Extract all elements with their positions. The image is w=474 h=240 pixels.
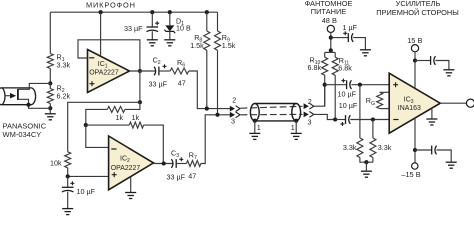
wire R6 to line 2 bbox=[189, 71, 231, 109]
svg-text:МИКРОФОН: МИКРОФОН bbox=[86, 0, 136, 9]
svg-text:33 µF: 33 µF bbox=[167, 172, 186, 181]
wire IC1 output bbox=[130, 70, 156, 72]
wire mic drain lead bbox=[18, 83, 50, 89]
svg-text:ПРИЕМНОЙ СТОРОНЫ: ПРИЕМНОЙ СТОРОНЫ bbox=[376, 8, 459, 17]
wire mic source lead bbox=[18, 99, 50, 108]
svg-text:48 В: 48 В bbox=[322, 16, 337, 25]
svg-text:1k: 1k bbox=[116, 113, 124, 122]
wire -15V supply bbox=[414, 118, 416, 163]
terminal output bbox=[466, 99, 474, 107]
arrow line3 right bbox=[304, 112, 314, 118]
node shield right bbox=[294, 119, 298, 123]
wire IC1 output down to divider bbox=[139, 71, 141, 102]
wire 15V supply bbox=[414, 52, 416, 89]
svg-text:1: 1 bbox=[291, 123, 295, 132]
ground -15V cap bbox=[446, 162, 457, 168]
svg-text:УСИЛИТЕЛЬ: УСИЛИТЕЛЬ bbox=[396, 0, 441, 8]
resistor 3.3k right bbox=[372, 120, 374, 139]
ground IC2 supply bbox=[130, 177, 132, 192]
ground under 33uF bbox=[147, 40, 158, 46]
wire line2 to receiver bbox=[313, 85, 325, 107]
svg-text:33 µF: 33 µF bbox=[124, 24, 143, 33]
capacitor C3 33uF bbox=[171, 159, 176, 168]
wire C2 to R6 bbox=[159, 70, 170, 72]
capacitor -15V bypass bbox=[415, 149, 432, 151]
resistor 1k first (input) bbox=[125, 102, 140, 109]
svg-text:3.3k: 3.3k bbox=[57, 61, 71, 70]
node mic ground junction bbox=[48, 106, 52, 110]
node -15V cap junction bbox=[413, 148, 417, 152]
wire IC3 output bbox=[440, 102, 466, 104]
node line3/R11 junction bbox=[333, 117, 337, 121]
capacitor 1uF bbox=[331, 37, 349, 39]
wire R1 to node A bbox=[49, 69, 51, 84]
svg-text:6.2k: 6.2k bbox=[57, 92, 71, 101]
resistor R10 6.8k bbox=[324, 52, 326, 57]
op-amp IC2 OPA2227 bbox=[109, 136, 154, 190]
svg-text:47: 47 bbox=[188, 171, 196, 180]
svg-text:OPA2227: OPA2227 bbox=[111, 165, 141, 172]
pin IC2 inverting marker bbox=[111, 148, 116, 150]
wire R2 bottom to ground node bbox=[49, 104, 51, 109]
node МИКРОФОН rail junctions bbox=[99, 10, 103, 14]
pin IC3 + marker bbox=[393, 82, 398, 87]
wire R1 top lead from rail bbox=[49, 12, 51, 53]
svg-text:3.3k: 3.3k bbox=[343, 143, 357, 152]
svg-text:3: 3 bbox=[231, 117, 235, 126]
capacitor 33uF rail filter bbox=[151, 12, 153, 27]
mic internal FET gate bar bbox=[17, 89, 19, 100]
wire 1k feedback to IC2 output bbox=[144, 125, 164, 163]
node RG + line bbox=[358, 83, 362, 87]
ground under 3.3k pair bbox=[365, 162, 367, 171]
node 48V cap junction bbox=[329, 36, 333, 40]
resistor RG gain set bbox=[380, 91, 390, 93]
ground under D1 bbox=[164, 40, 175, 46]
pin IC1 inverting input marker bbox=[89, 57, 94, 59]
node 3.3k common bbox=[364, 160, 368, 164]
shielded cable cylinder bbox=[250, 104, 300, 121]
terminal 48V bbox=[327, 25, 334, 32]
svg-text:2: 2 bbox=[232, 96, 236, 105]
svg-text:10k: 10k bbox=[50, 158, 62, 167]
op-amp IC3 INA163 bbox=[389, 73, 440, 133]
node IC2 output/feedback bbox=[162, 161, 166, 165]
svg-text:10 µF: 10 µF bbox=[338, 90, 357, 99]
resistor R6 47 bbox=[170, 68, 188, 74]
ground 15V cap bbox=[443, 70, 454, 76]
ground shield left, pin 1 bbox=[254, 121, 256, 133]
diode D1 zener 10V bbox=[169, 12, 171, 25]
ground shield right, pin 1 bbox=[295, 121, 297, 133]
node RG - line bbox=[371, 117, 375, 121]
svg-text:1.5k: 1.5k bbox=[222, 41, 236, 50]
node R9 line3 bbox=[215, 113, 219, 117]
wire 10k to IC2 + input bbox=[68, 168, 109, 177]
terminal 15V bbox=[411, 45, 418, 52]
svg-text:OPA2227: OPA2227 bbox=[89, 69, 119, 76]
svg-text:10 µF: 10 µF bbox=[77, 187, 96, 196]
svg-text:–15 В: –15 В bbox=[401, 170, 420, 179]
svg-text:WM-034CY: WM-034CY bbox=[3, 130, 42, 139]
resistor R9 1.5k bbox=[217, 12, 219, 31]
wire IC1 feedback loop output to inverting input bbox=[78, 40, 140, 71]
node line2/R10 junction bbox=[323, 83, 327, 87]
terminal -15V bbox=[412, 163, 418, 169]
wire 48V down bbox=[330, 33, 332, 53]
node IC2 + bias node bbox=[66, 174, 70, 178]
arrow line3 left bbox=[230, 112, 240, 118]
pin IC2 noninverting marker bbox=[112, 172, 117, 177]
arrow line2 left bbox=[230, 106, 240, 112]
pin IC1 noninverting input marker bbox=[90, 81, 95, 86]
mic internal electret arrow bbox=[5, 95, 11, 97]
ground under 10uF bbox=[67, 192, 69, 209]
capacitor C2 33uF bbox=[154, 67, 159, 76]
resistor R1 3.3k bbox=[47, 54, 53, 69]
capacitor 10uF bias bbox=[67, 176, 69, 187]
svg-text:INA163: INA163 bbox=[398, 105, 421, 112]
svg-text:15 В: 15 В bbox=[407, 36, 422, 45]
capacitor 10uF line3 bbox=[335, 119, 345, 121]
wire R7 to line 3 bbox=[201, 115, 230, 164]
svg-text:3: 3 bbox=[308, 118, 312, 127]
resistor 1k second (feedback) bbox=[86, 124, 130, 126]
capacitor 15V bypass bbox=[415, 60, 431, 62]
svg-text:1 µF: 1 µF bbox=[343, 23, 358, 32]
node mic source terminal bbox=[26, 103, 30, 107]
resistor 3.3k left bbox=[359, 85, 361, 138]
wire R10 R11 bracket bbox=[325, 51, 336, 53]
wire C3 to R7 bbox=[176, 163, 186, 165]
svg-text:1k: 1k bbox=[132, 113, 140, 122]
wire IC2 output bbox=[154, 163, 173, 165]
node shield left bbox=[253, 119, 257, 123]
resistor 10k bbox=[65, 152, 71, 168]
node IC1 output bbox=[138, 69, 142, 73]
svg-text:47: 47 bbox=[178, 78, 186, 87]
wire top rail МИКРОФОН bbox=[50, 11, 217, 13]
arrow line2 right bbox=[304, 103, 314, 109]
svg-text:1: 1 bbox=[257, 123, 261, 132]
pin IC3 - marker bbox=[393, 119, 398, 121]
wire to 10k bias filter bbox=[68, 102, 140, 152]
node 15V cap junction bbox=[413, 58, 417, 62]
node wire1 junction bbox=[138, 100, 142, 104]
wire line3 to receiver bbox=[313, 114, 335, 119]
svg-text:6.8k: 6.8k bbox=[308, 63, 322, 72]
node IC2 inverting junction bbox=[84, 123, 88, 127]
microphone WM-034CY capsule bbox=[0, 88, 36, 105]
node R8 line2 bbox=[205, 107, 209, 111]
capacitor 10uF line2 bbox=[325, 84, 347, 86]
resistor R2 6.2k bbox=[49, 83, 51, 88]
wire dashed pair in shield bbox=[241, 106, 303, 108]
svg-text:10 µF: 10 µF bbox=[339, 101, 358, 110]
svg-text:33 µF: 33 µF bbox=[149, 80, 168, 89]
svg-text:3.3k: 3.3k bbox=[378, 143, 392, 152]
svg-text:1.5k: 1.5k bbox=[190, 41, 204, 50]
ground under 1uF bbox=[360, 50, 371, 56]
resistor R7 47 bbox=[186, 161, 201, 167]
ground under R2 bbox=[49, 108, 51, 114]
resistor R11 6.8k bbox=[334, 52, 336, 57]
wire to IC2 inverting input bbox=[86, 125, 109, 147]
resistor R8 1.5k bbox=[206, 12, 208, 31]
ground IC3 bbox=[431, 108, 433, 119]
svg-text:10 В: 10 В bbox=[176, 24, 191, 33]
op-amp IC1 OPA2227 bbox=[88, 50, 130, 93]
svg-text:ПИТАНИЕ: ПИТАНИЕ bbox=[311, 7, 346, 16]
node R10/R11 top junction bbox=[329, 48, 333, 52]
wire IC1 V+ supply from rail bbox=[100, 12, 102, 56]
svg-text:6.8k: 6.8k bbox=[338, 64, 352, 73]
node A mic/R1/R2 junction bbox=[48, 81, 52, 85]
